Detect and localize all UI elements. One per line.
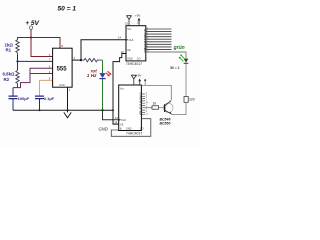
- +5V arrow above U2 pin 16: [138, 18, 141, 21]
- svg-text:GND: GND: [126, 127, 132, 130]
- node output junction dot: [80, 59, 82, 61]
- wire +5V tee to 555 pin 8 top: [31, 38, 60, 49]
- wire junction to R2 top: [17, 61, 19, 70]
- wire R1 bottom to junction: [17, 55, 19, 62]
- +5V arrow above U3 pin 16: [138, 79, 141, 82]
- LED D1 red triangle: [99, 73, 105, 78]
- wire bracket staircase down to cap node: [13, 74, 30, 88]
- svg-text:CLK: CLK: [129, 39, 134, 42]
- svg-text:13: 13: [121, 50, 125, 54]
- transistor Q1 collector: [165, 100, 172, 106]
- svg-text:GND: GND: [127, 57, 133, 60]
- resistor R5 1k box: [152, 106, 159, 109]
- node dot LED net at ground rail: [101, 109, 103, 111]
- wire 220 bottom to emitter line: [171, 102, 186, 114]
- wire U3 pin 8 loop under box: [111, 119, 151, 137]
- svg-text:CLK: CLK: [121, 119, 126, 122]
- wire U2 Q9 to green LED rail: [146, 52, 186, 58]
- svg-text:15: 15: [125, 22, 129, 26]
- svg-text:50 = 1: 50 = 1: [170, 66, 179, 70]
- transistor Q1 emitter with arrow: [165, 110, 172, 114]
- svg-text:GND: GND: [59, 83, 65, 87]
- svg-text:100µF: 100µF: [18, 96, 30, 101]
- svg-text:1: 1: [69, 88, 71, 92]
- svg-text:CO: CO: [137, 57, 141, 60]
- node dot C2 at rail: [39, 109, 41, 111]
- svg-text:CE: CE: [127, 49, 131, 52]
- LED D2 light arrows green: [179, 55, 185, 62]
- wire C2 bottom to ground rail: [39, 99, 41, 110]
- IC U3 74HC4017 body: [119, 85, 142, 131]
- capacitor C2 plates: [35, 96, 44, 99]
- svg-text:50 = 1: 50 = 1: [58, 6, 77, 13]
- node dot rail jog: [112, 109, 114, 111]
- LED D2 green triangle: [184, 59, 189, 63]
- pin numbers U3 outputs: [146, 93, 149, 116]
- resistor R1 zigzag: [16, 40, 19, 55]
- wire output riser to clock line: [81, 40, 126, 60]
- svg-text:8: 8: [62, 44, 64, 48]
- resistor R2 zigzag: [16, 70, 19, 83]
- wire R2 bottom to cap node: [17, 83, 19, 87]
- transistor Q1 base bar: [164, 104, 166, 112]
- ground symbol above U2 pin 15: [126, 16, 131, 20]
- ground symbol above U3 pin 15: [131, 75, 136, 79]
- wire green LED down to resistor 220: [185, 64, 187, 97]
- svg-text:grün: grün: [173, 45, 185, 51]
- wire red LED down to rail crossing: [102, 79, 104, 111]
- wire junction to 555 pin 7: [18, 60, 53, 62]
- LED D1 cathode bar: [99, 78, 105, 80]
- svg-text:0.1µF: 0.1µF: [44, 96, 55, 101]
- +5V terminal circle: [29, 26, 32, 29]
- node junction dot at +5V tee: [30, 36, 32, 38]
- svg-text:CO: CO: [140, 127, 144, 130]
- resistor R3 zigzag (output series): [81, 58, 103, 61]
- svg-text:+ 5V: + 5V: [25, 20, 39, 27]
- svg-text:74HC4017: 74HC4017: [126, 132, 142, 136]
- IC U1 555 timer body: [53, 48, 73, 87]
- wire 555 pin6-pin2 bracket: [30, 68, 53, 73]
- capacitor C1 plates: [9, 96, 18, 99]
- U2 pin 15 reset to ground symbol: [128, 20, 130, 26]
- wire 555 pin 1 to ground rail: [67, 87, 69, 110]
- svg-text:11: 11: [146, 113, 149, 115]
- svg-text:555: 555: [57, 66, 68, 72]
- U3 clock input triangle: [119, 119, 121, 122]
- wire +5V down to 555 pin 4: [31, 38, 53, 57]
- wire 555 pin 5 to C2 (control): [40, 80, 53, 96]
- wire output down to red LED (green net): [102, 60, 104, 73]
- svg-text:14: 14: [118, 36, 122, 40]
- svg-text:+5V: +5V: [135, 13, 140, 17]
- wire 1k to transistor base: [159, 107, 165, 109]
- svg-text:R2: R2: [4, 77, 10, 82]
- wire U2 pins 13/8 staircase to ground: [113, 54, 126, 111]
- U2 output ladder stubs Q0-Q8: [146, 29, 172, 49]
- wire 555 pin 3 output: [72, 59, 81, 61]
- U3 pin 16 Vcc stub: [139, 81, 141, 85]
- svg-text:220: 220: [189, 97, 195, 101]
- wire ground rail jog to U3 pin 13: [113, 110, 119, 124]
- wire clock into U3 pin 14: [103, 110, 119, 120]
- U2 clock input triangle: [126, 39, 128, 42]
- wire emitter to 220 bottom line: [170, 114, 172, 115]
- resistor R4 220 box: [184, 96, 188, 102]
- +5V stub dot on collector net: [144, 79, 146, 81]
- node junction dot R1/R2/pin7: [16, 60, 18, 62]
- wire +5V down to rail junction: [30, 29, 32, 37]
- svg-text:R1: R1: [6, 47, 12, 52]
- wire U3 output to base resistor: [141, 107, 152, 109]
- wire U3 top-right to transistor collector: [141, 85, 171, 99]
- svg-text:BC550: BC550: [160, 121, 171, 125]
- svg-text:14: 14: [114, 120, 118, 124]
- svg-text:74HC4017: 74HC4017: [126, 62, 142, 66]
- svg-text:1 Hz: 1 Hz: [87, 73, 97, 78]
- U3 pin 15 reset to ground symbol: [133, 79, 135, 85]
- svg-text:+5V: +5V: [136, 73, 141, 77]
- wire +5V tee to R1 top: [18, 38, 32, 40]
- wire cap node to C1 top: [12, 88, 14, 111]
- U3 output ladder stubs: [141, 94, 145, 115]
- svg-text:16: 16: [137, 21, 141, 25]
- IC U2 74HC4017 body: [126, 26, 146, 61]
- svg-text:GND: GND: [99, 126, 108, 131]
- U2 pin 16 Vcc stub: [138, 20, 140, 25]
- LED D2 cathode bar: [184, 62, 189, 64]
- svg-text:13: 13: [115, 116, 119, 120]
- pin numbers U2 outputs: [146, 28, 149, 53]
- transistor Q1 circle: [163, 103, 173, 113]
- node dot pin1 at rail: [67, 109, 69, 111]
- wire +5V stub down: [144, 80, 146, 85]
- svg-text:1k: 1k: [153, 102, 157, 106]
- svg-text:6.8kΩ: 6.8kΩ: [3, 72, 16, 77]
- ground symbol arrow below rail: [64, 110, 71, 118]
- ground rail wire: [13, 109, 113, 111]
- LED D1 light arrows red: [106, 71, 111, 76]
